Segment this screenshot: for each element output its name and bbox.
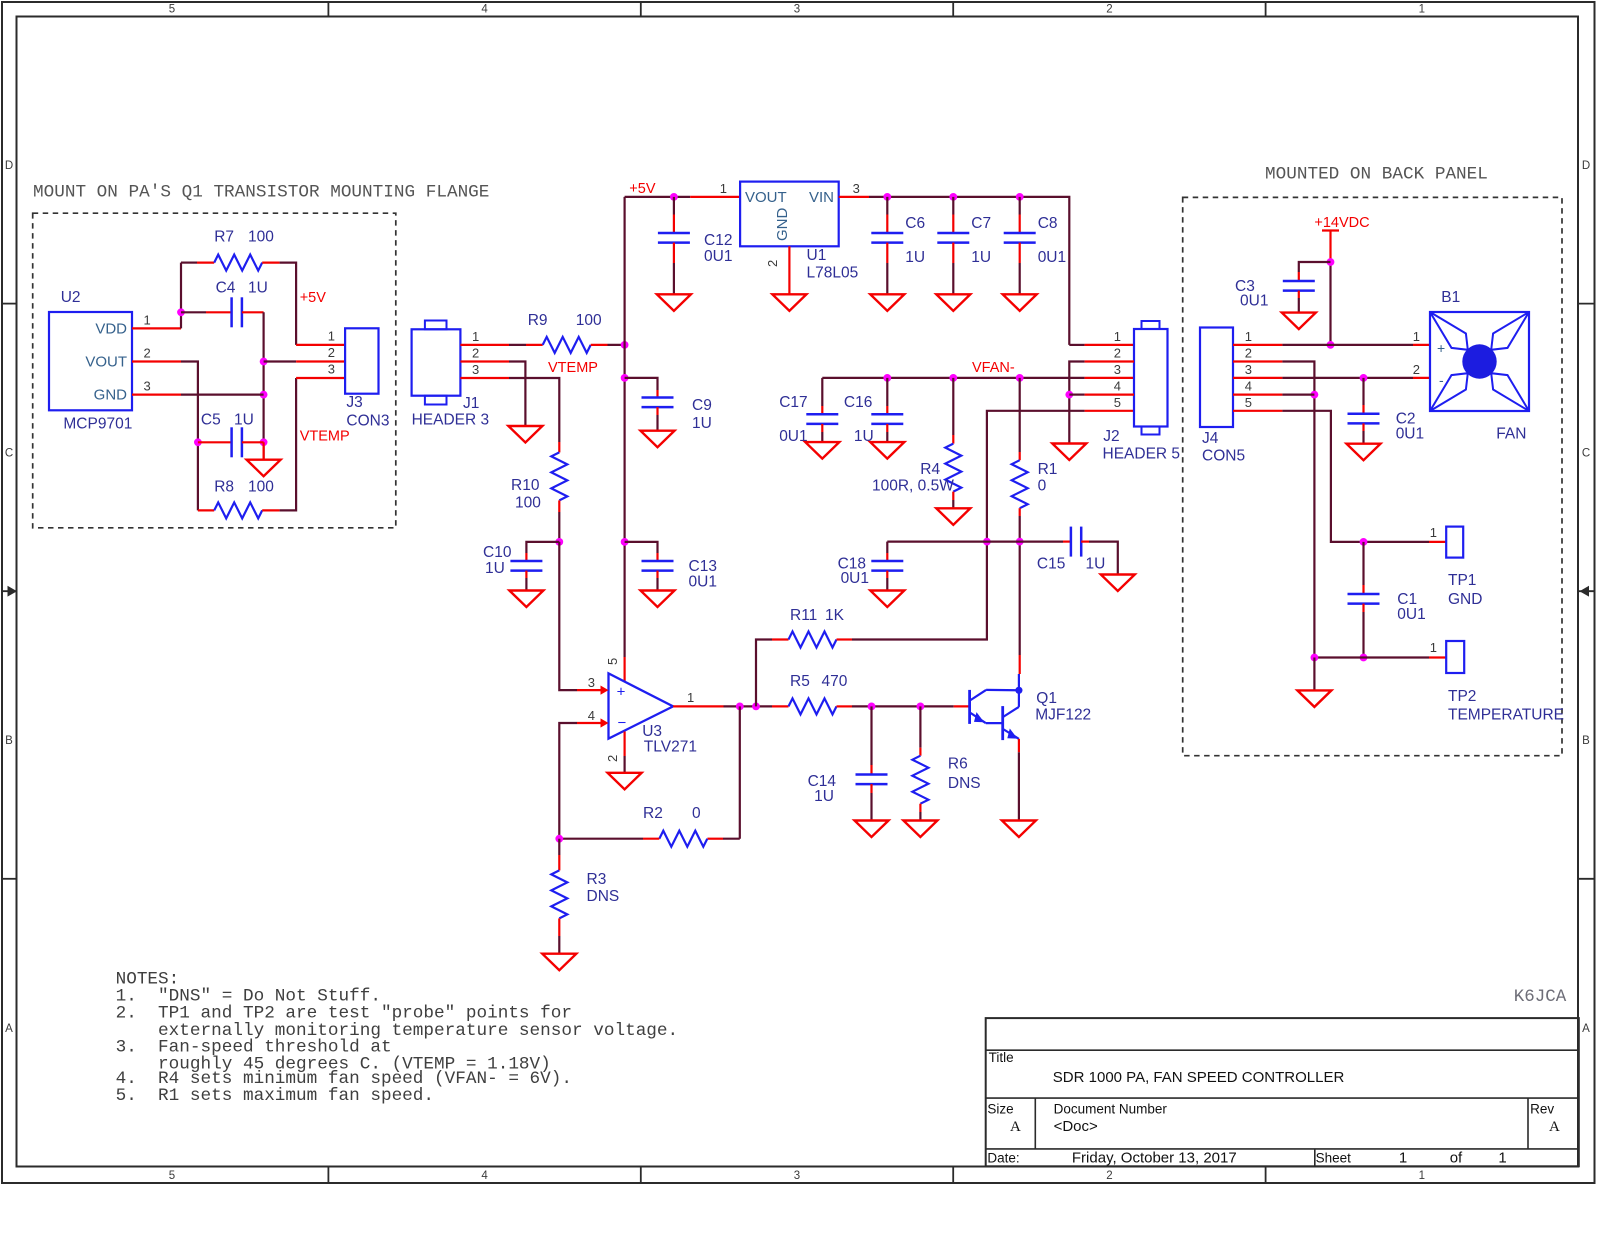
svg-text:D: D (1582, 160, 1590, 172)
svg-text:R9: R9 (528, 312, 548, 329)
lead R11 right (837, 638, 853, 640)
svg-text:GND: GND (94, 387, 128, 404)
wire rail to op-amp pin5 (623, 657, 625, 682)
capacitor C16 (871, 413, 903, 416)
wire C6 stem (886, 197, 888, 215)
junction fanrow/C2 (1360, 374, 1368, 382)
lead R10 top (558, 442, 560, 452)
wire VOUT corner (181, 362, 198, 511)
wire C1 stem (1362, 542, 1364, 585)
svg-text:Sheet: Sheet (1316, 1151, 1352, 1166)
capacitor C5 (230, 427, 233, 457)
lead op-amp pin4 (577, 722, 603, 724)
svg-text:C15: C15 (1037, 556, 1065, 573)
lead Q1 emitter (1018, 739, 1020, 752)
wire R7 row left (181, 262, 197, 264)
svg-text:MOUNT ON PA'S Q1 TRANSISTOR MO: MOUNT ON PA'S Q1 TRANSISTOR MOUNTING FLA… (33, 183, 489, 203)
wire C12 stem (673, 197, 675, 215)
svg-text:MOUNTED ON BACK PANEL: MOUNTED ON BACK PANEL (1265, 165, 1488, 185)
ground (C18) (870, 591, 904, 608)
wire R7 to J3-1 (280, 263, 297, 345)
svg-text:+: + (1437, 340, 1445, 356)
svg-text:470: 470 (822, 673, 848, 690)
svg-text:1U: 1U (971, 249, 991, 266)
svg-text:1U: 1U (692, 415, 712, 432)
dashed enclosure right (back panel) (1183, 197, 1562, 755)
svg-text:0U1: 0U1 (841, 570, 869, 587)
svg-text:−: − (618, 715, 627, 732)
svg-text:TP1: TP1 (1448, 572, 1476, 589)
svg-text:4: 4 (1245, 379, 1252, 394)
wire +5V rail vertical (623, 197, 625, 657)
svg-text:+: + (617, 684, 626, 701)
ground (R6) (903, 821, 937, 838)
svg-text:R7: R7 (214, 229, 234, 246)
svg-text:J4: J4 (1202, 430, 1219, 447)
capacitor C3 (1283, 280, 1315, 283)
svg-text:TLV271: TLV271 (644, 739, 697, 756)
svg-text:C13: C13 (689, 558, 717, 575)
svg-text:-: - (1439, 372, 1444, 388)
resistor R5 (789, 698, 837, 714)
wire to J2-1 (1069, 344, 1084, 346)
svg-text:C9: C9 (692, 397, 712, 414)
wire Q1 collector up (1019, 542, 1021, 655)
wire C16 to ground (886, 432, 888, 442)
svg-text:0U1: 0U1 (1396, 426, 1424, 443)
svg-text:FAN: FAN (1496, 426, 1526, 443)
lead C12 top (673, 215, 675, 234)
capacitor C17 (806, 413, 838, 416)
svg-text:4: 4 (1114, 379, 1121, 394)
svg-text:L78L05: L78L05 (807, 265, 859, 282)
ground (C14) (855, 821, 889, 838)
test point TP2 body (1446, 641, 1464, 673)
svg-text:+5V: +5V (300, 290, 327, 306)
lead C6 top (886, 215, 888, 234)
border zone tick marks (327, 2, 329, 17)
wire J1-1 to R9 (509, 344, 526, 346)
svg-text:1: 1 (1413, 329, 1420, 344)
junction VFAN/R4 (949, 374, 957, 382)
ground (C17) (805, 442, 839, 459)
svg-text:SDR 1000 PA, FAN SPEED CONTROL: SDR 1000 PA, FAN SPEED CONTROLLER (1053, 1069, 1345, 1086)
connector J2 body (1134, 329, 1168, 427)
svg-text:1: 1 (1114, 329, 1121, 344)
junction R5/R6 (917, 703, 925, 711)
lead R6 bottom (919, 804, 921, 812)
ground (C3) (1282, 313, 1316, 330)
wire R4 stem (952, 378, 954, 435)
junction rail/C9 (621, 374, 629, 382)
fan B1 symbol (1430, 312, 1529, 411)
ground (J1-2) (508, 426, 542, 443)
svg-text:0: 0 (1038, 478, 1047, 495)
svg-text:3: 3 (794, 4, 800, 16)
resistor R2 (659, 831, 707, 847)
svg-text:B: B (5, 735, 13, 747)
junction rail/C7 (949, 193, 957, 201)
lead R4 bottom (952, 492, 954, 500)
lead C1 top (1362, 585, 1364, 594)
wire J1-3 VTEMP (509, 378, 559, 442)
ground (R4) (936, 508, 970, 525)
svg-text:5. R1 sets maximum fan speed.: 5. R1 sets maximum fan speed. (116, 1086, 434, 1106)
pin stub J1-3 (460, 377, 509, 379)
junction output/R2 (736, 703, 744, 711)
wire C9 to ground (656, 415, 658, 431)
svg-text:DNS: DNS (948, 775, 981, 792)
svg-text:2: 2 (472, 346, 479, 361)
junction VDD/C4 (177, 308, 185, 316)
test point TP1 body (1446, 527, 1463, 558)
lead R3 bottom (558, 918, 560, 936)
svg-text:B: B (1582, 735, 1590, 747)
junction R2/R3 (555, 835, 563, 843)
junction VFAN/C16 (883, 374, 891, 382)
wire C17 stem (821, 378, 823, 406)
wire J3-2 row (264, 360, 297, 362)
junction +5V/C12 (670, 193, 678, 201)
capacitor C4 (230, 297, 233, 327)
svg-text:1: 1 (144, 313, 151, 328)
connector J4 body (1200, 328, 1233, 428)
svg-text:MJF122: MJF122 (1035, 707, 1091, 724)
svg-text:3: 3 (144, 379, 151, 394)
title block frame (986, 1018, 1579, 1166)
ground (J2) (1052, 444, 1086, 461)
wire U3-2 to ground (623, 756, 625, 773)
capacitor C1 (1348, 593, 1380, 596)
wire C8 stem (1019, 197, 1021, 215)
svg-text:0U1: 0U1 (1240, 293, 1268, 310)
lead TP1 (1429, 541, 1446, 543)
pin stub J3-1 (296, 344, 345, 346)
wire J4-5 to TP1 (1282, 411, 1429, 542)
op-amp U3 triangle (609, 673, 674, 738)
svg-text:R3: R3 (587, 871, 607, 888)
pin stub U2-1 (132, 327, 181, 329)
lead C9 bottom (656, 407, 658, 415)
wire VFAN- row (822, 377, 1084, 379)
wire C18 to ground (886, 578, 888, 591)
svg-text:+14VDC: +14VDC (1314, 215, 1369, 231)
lead fan pin1 (1413, 344, 1430, 346)
ground (U1-2) (772, 294, 806, 311)
svg-text:Q1: Q1 (1036, 690, 1057, 707)
wire to panel ground (1313, 658, 1315, 691)
svg-text:0: 0 (692, 805, 701, 822)
svg-text:C10: C10 (483, 544, 512, 561)
lead C16 top (886, 406, 888, 414)
junction GND/J3-2 row (260, 358, 268, 366)
input arrow pin3 (601, 686, 609, 695)
wire C3 branch (1299, 262, 1331, 272)
resistor R10 (551, 452, 567, 500)
wire U2-3 GND row (181, 394, 264, 396)
wire to op-amp pin3 (559, 542, 577, 690)
wire R6 to ground (919, 812, 921, 821)
wire VIN rail (869, 197, 1069, 345)
junction R5/C14 (868, 703, 876, 711)
svg-text:1: 1 (328, 329, 335, 344)
svg-text:5: 5 (1245, 395, 1252, 410)
svg-text:3: 3 (853, 181, 860, 196)
ground (C8) (1003, 294, 1037, 311)
wire C9 branch (625, 378, 658, 390)
svg-text:R1: R1 (1038, 461, 1058, 478)
input arrow pin4 (601, 718, 609, 727)
lead fan pin2 (1413, 377, 1430, 379)
svg-text:A: A (1549, 1119, 1560, 1135)
lead C10 bottom (525, 571, 527, 578)
wire GND vertical (C4 right) (263, 312, 265, 459)
svg-text:Title: Title (989, 1050, 1014, 1065)
resistor R6 (912, 756, 928, 804)
svg-text:C17: C17 (779, 394, 807, 411)
ground (U3-2) (608, 773, 642, 790)
svg-text:VOUT: VOUT (85, 353, 127, 370)
svg-text:4: 4 (481, 1170, 488, 1182)
wire R3 top (558, 839, 560, 855)
lead C2 top (1362, 405, 1364, 414)
wire C7 stem (952, 197, 954, 215)
lead TP2 (1429, 656, 1446, 658)
svg-text:Rev: Rev (1530, 1102, 1554, 1117)
junction GND/C5 right (260, 438, 268, 446)
pin stub J4-1 (1233, 344, 1282, 346)
svg-text:U3: U3 (642, 723, 662, 740)
svg-text:Friday, October 13, 2017: Friday, October 13, 2017 (1072, 1150, 1237, 1167)
lead C16 bottom (886, 424, 888, 432)
wire R5 to Q1 base (852, 705, 954, 707)
svg-text:B1: B1 (1441, 289, 1460, 306)
lead C17 bottom (821, 424, 823, 432)
wire R3 to ground (558, 936, 560, 954)
svg-text:VOUT: VOUT (745, 189, 787, 206)
ground (C13) (641, 591, 675, 608)
wire C13 to ground (656, 578, 658, 591)
junction J4-2col/TP2 row (1311, 654, 1319, 662)
svg-text:U1: U1 (807, 247, 827, 264)
pin stub J4-5 (1233, 410, 1282, 412)
wire VDD vertical (180, 263, 182, 329)
wire op-amp pin4 vertical (559, 723, 577, 839)
wire C2 stem (1362, 378, 1364, 405)
pin stub J3-3 (296, 377, 345, 379)
svg-text:1: 1 (1419, 1170, 1425, 1182)
resistor R8 (214, 502, 262, 518)
transistor Q1 MJF122 (968, 690, 971, 724)
svg-text:2: 2 (1245, 346, 1252, 361)
lead R9 right (591, 344, 608, 346)
svg-text:CON3: CON3 (346, 413, 389, 430)
wire R2 row right (723, 838, 740, 840)
svg-text:VIN: VIN (809, 189, 834, 206)
junction column/collector row (983, 538, 991, 546)
capacitor C2 (1348, 413, 1380, 416)
wire R8 to J3-3 (280, 378, 297, 510)
pin stub J2-4 (1085, 394, 1134, 396)
ground (C10) (509, 591, 543, 608)
svg-text:HEADER 3: HEADER 3 (412, 412, 490, 429)
wire C13 branch (625, 542, 658, 553)
svg-text:4: 4 (588, 708, 595, 723)
wire C10 to ground (525, 578, 527, 591)
svg-text:CON5: CON5 (1202, 448, 1245, 465)
svg-text:1: 1 (1419, 4, 1425, 16)
resistor R11 (789, 632, 837, 648)
svg-text:Document Number: Document Number (1054, 1102, 1168, 1117)
lead C18 top (886, 553, 888, 561)
svg-text:A: A (5, 1023, 13, 1035)
wire R11 feedback up (756, 640, 772, 707)
ground (C4/C5/U2) (247, 460, 281, 477)
svg-text:1U: 1U (905, 249, 925, 266)
wire C14 to ground (870, 793, 872, 821)
svg-text:100: 100 (248, 479, 274, 496)
lead C13 bottom (656, 571, 658, 578)
svg-text:VTEMP: VTEMP (300, 429, 350, 445)
junction rail/C6 (883, 193, 891, 201)
wire C14 stem (870, 706, 872, 765)
capacitor C18 (871, 560, 903, 563)
svg-text:4: 4 (481, 4, 488, 16)
junction VFAN/R1 (1016, 374, 1024, 382)
svg-text:C7: C7 (971, 215, 991, 232)
wire C7 to ground (952, 263, 954, 294)
svg-text:C12: C12 (704, 232, 732, 249)
svg-text:0U1: 0U1 (779, 428, 807, 445)
svg-text:R4: R4 (920, 461, 940, 478)
ground (C15) (1101, 575, 1135, 592)
lead Q1 collector (1019, 655, 1021, 674)
svg-text:TEMPERATURE: TEMPERATURE (1448, 707, 1564, 724)
svg-text:DNS: DNS (587, 888, 620, 905)
lead C6 bottom (886, 243, 888, 263)
pin stub U1-1 (690, 196, 740, 198)
wire C5 right to ground (263, 442, 265, 459)
lead R4 top (952, 435, 954, 444)
lead C13 top (656, 553, 658, 561)
svg-text:J1: J1 (463, 395, 479, 412)
junction rail/C8 (1016, 193, 1024, 201)
svg-text:1U: 1U (234, 412, 254, 429)
wire R2 feedback down (739, 706, 741, 838)
lead C15 right (1081, 540, 1089, 542)
ground (C12) (657, 294, 691, 311)
lead C15 left (1063, 540, 1071, 542)
resistor R4 (945, 444, 961, 492)
svg-text:3: 3 (588, 675, 595, 690)
wire J2-2 to ground column (1069, 362, 1084, 444)
junction TP1/C1 (1360, 538, 1368, 546)
lead R7 right (262, 262, 279, 264)
resistor R7 (214, 255, 262, 271)
wire J1-2 to ground (509, 362, 525, 427)
ground (C16) (870, 442, 904, 459)
lead C4 left (206, 311, 232, 313)
resistor R1 (1012, 460, 1028, 508)
wire R2 to pin4 column (559, 838, 643, 840)
lead C5 left (198, 441, 232, 443)
svg-text:of: of (1450, 1150, 1463, 1167)
lead R5 left (772, 705, 789, 707)
svg-text:0U1: 0U1 (704, 248, 732, 265)
lead C14 top (870, 765, 872, 775)
ground (C7) (936, 294, 970, 311)
lead C2 bottom (1362, 423, 1364, 431)
svg-text:R8: R8 (214, 479, 234, 496)
lead C18 bottom (886, 571, 888, 578)
svg-text:1U: 1U (248, 280, 268, 297)
lead C5 right (242, 441, 264, 443)
lead C8 bottom (1019, 243, 1021, 263)
svg-text:C6: C6 (905, 215, 925, 232)
svg-text:1: 1 (687, 690, 694, 705)
wire output row (724, 705, 773, 707)
capacitor C10 (510, 560, 542, 563)
ground (C9) (641, 431, 675, 448)
lead Q1 base (954, 705, 970, 707)
lead R8 right (262, 509, 279, 511)
svg-text:1U: 1U (1086, 556, 1106, 573)
svg-text:100: 100 (576, 312, 602, 329)
wire collector row (887, 540, 1063, 542)
ground (C2) (1347, 444, 1381, 461)
lead C1 bottom (1362, 604, 1364, 612)
svg-text:GND: GND (774, 208, 791, 242)
svg-text:R11: R11 (790, 607, 817, 624)
resistor R3 (551, 870, 567, 918)
svg-text:<Doc>: <Doc> (1054, 1118, 1098, 1135)
wire C2 to ground (1362, 431, 1364, 444)
svg-text:R6: R6 (948, 756, 968, 773)
svg-text:100: 100 (515, 495, 541, 512)
svg-text:TP2: TP2 (1448, 688, 1476, 705)
svg-text:C5: C5 (201, 412, 221, 429)
wire C3 to ground (1298, 298, 1300, 313)
junction VOUT/C5 left (194, 438, 202, 446)
junction +14/J4-1 row (1327, 341, 1335, 349)
capacitor C6 (871, 232, 903, 235)
lead R10 bottom (558, 500, 560, 512)
svg-text:+5V: +5V (629, 181, 656, 197)
lead C17 top (821, 406, 823, 414)
svg-text:1K: 1K (825, 607, 845, 624)
svg-text:MCP9701: MCP9701 (63, 416, 132, 433)
lead R2 left (643, 838, 659, 840)
svg-text:R10: R10 (511, 477, 540, 494)
wire C12 to ground (673, 263, 675, 294)
svg-text:GND: GND (1448, 591, 1482, 608)
pin stub U1-3 (839, 196, 869, 198)
pin stub J2-1 (1085, 344, 1134, 346)
svg-text:C8: C8 (1038, 215, 1058, 232)
svg-text:3: 3 (1245, 362, 1252, 377)
pin stub J2-3 (1085, 377, 1134, 379)
wire R6 stem (919, 706, 921, 747)
svg-text:VTEMP: VTEMP (548, 360, 598, 376)
lead C8 top (1019, 215, 1021, 234)
ground (panel) (1297, 690, 1331, 707)
ground (C6) (870, 294, 904, 311)
wire R1 to collector row (1019, 516, 1021, 542)
svg-text:3: 3 (1114, 362, 1121, 377)
regulator U1 body (740, 182, 839, 247)
svg-text:C: C (5, 448, 13, 460)
wire R4 to ground (952, 500, 954, 508)
